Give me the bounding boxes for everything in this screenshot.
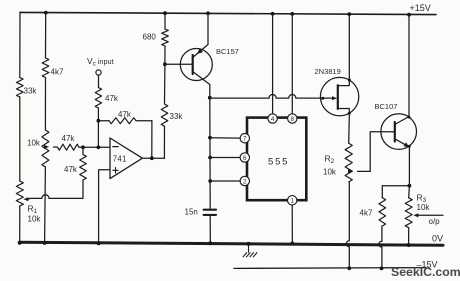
- svg-text:47k: 47k: [118, 110, 132, 119]
- 555 pin 8: [288, 114, 297, 123]
- wire collector node to FET gate: [210, 94, 332, 98]
- junction 4k7 / -15V: [380, 266, 384, 270]
- junction BC157 base node: [163, 62, 167, 66]
- dot drain-circle crossing: [348, 78, 351, 81]
- junction col-B / +15V: [44, 11, 48, 15]
- wire 33k to base junction: [164, 64, 166, 104]
- junction output node: [150, 156, 154, 160]
- wire feedback to down-corner: [136, 120, 152, 122]
- wire cap to 0V: [209, 215, 211, 243]
- wire vertical 47k to corner: [82, 180, 84, 198]
- svg-text:33k: 33k: [24, 87, 38, 96]
- wire pin6 to timing node: [210, 157, 240, 159]
- wire op-amp output: [142, 157, 164, 159]
- resistor 47k (pot wiper to inverting node): [58, 144, 80, 150]
- wire 47k to op-amp inverting input: [79, 146, 110, 148]
- svg-text:10k: 10k: [323, 168, 337, 177]
- svg-text:47k: 47k: [105, 94, 119, 103]
- wire pin4 to +15V: [272, 14, 274, 114]
- 555 pin 7: [240, 134, 249, 143]
- wire R1 to 0V: [19, 206, 21, 242]
- resistor 680: [162, 29, 169, 46]
- BC157 collector: [193, 72, 210, 98]
- 555 pin 2: [240, 176, 249, 185]
- junction 680 / +15V: [163, 11, 167, 15]
- svg-text:0V: 0V: [432, 233, 443, 243]
- junction dot on gate wire: [321, 97, 324, 100]
- potentiometer 10k (left): [42, 130, 49, 167]
- wire pin2 to timing node: [210, 180, 240, 182]
- junction pin4 / +15V: [271, 12, 275, 16]
- resistor 47k (vertical, to R1 wiper): [80, 155, 87, 181]
- svg-text:47k: 47k: [64, 165, 78, 174]
- wire +15V to 33k R-left: [19, 12, 21, 77]
- BC157 base wire: [165, 63, 193, 65]
- resistor 47k (feedback): [109, 118, 136, 124]
- junction BC107 collector / +15V: [407, 13, 411, 17]
- junction cap / 0V: [208, 241, 212, 245]
- R3 wiper arrow (o/p): [413, 213, 418, 217]
- wire 47k to summing node: [97, 108, 99, 121]
- wire R2 to -15V (hops 0V): [346, 182, 349, 268]
- junction pin2 tap: [208, 179, 212, 183]
- +15V supply rail: [20, 12, 436, 14]
- wire non-inverting input to 0V: [99, 170, 110, 243]
- wire pin8 to +15V: [291, 14, 293, 114]
- potentiometer R1 10k: [16, 181, 23, 206]
- wire 33k to R1: [19, 97, 21, 181]
- potentiometer R3 10k: [405, 198, 412, 228]
- junction BC157 emitter / +15V: [206, 11, 210, 15]
- 555 pin 6: [240, 153, 249, 162]
- svg-text:2N3819: 2N3819: [315, 67, 341, 76]
- wire junction down to vertical 47k: [82, 147, 84, 154]
- R1 wiper arrow: [23, 197, 28, 201]
- junction inverting node: [97, 145, 101, 149]
- junction R2 / -15V: [347, 266, 351, 270]
- junction BC157 collector node: [208, 96, 212, 100]
- wire R1 wiper run (hops col-B): [30, 195, 84, 199]
- wire pot to 0V: [44, 167, 47, 242]
- transistor Q2 2N3819 body: [320, 77, 358, 115]
- wire collector node down to timing node: [209, 98, 211, 210]
- pot 10k wiper arrow: [44, 145, 49, 149]
- svg-text:o/p: o/p: [429, 217, 441, 226]
- svg-text:33k: 33k: [170, 112, 184, 121]
- svg-text:+15V: +15V: [410, 3, 431, 13]
- 2N3819 channel bar: [337, 85, 339, 109]
- svg-text:7: 7: [243, 136, 247, 143]
- -15V rail: [234, 267, 426, 270]
- junction pin1 / 0V: [290, 242, 294, 246]
- resistor 4k7 (left): [42, 58, 49, 78]
- op-amp plus sign: [113, 169, 118, 171]
- svg-text:8: 8: [291, 116, 295, 123]
- 555 pin 4: [268, 114, 277, 123]
- resistor 33k (middle): [161, 104, 168, 126]
- BC157 base bar: [192, 55, 194, 74]
- wire summing node to inverting node: [97, 121, 99, 148]
- junction summing node: [97, 119, 101, 123]
- wire emitter node to R3: [408, 186, 411, 198]
- R2 wiper arrow: [348, 169, 353, 173]
- svg-text:BC157: BC157: [216, 47, 239, 56]
- resistor 47k (Vc input): [95, 88, 101, 109]
- transistor Q1 BC157 body: [180, 49, 212, 81]
- junction R3 / 0V: [407, 243, 411, 247]
- resistor 4k7 (right): [379, 198, 386, 226]
- wire feedback down to output: [151, 121, 153, 159]
- BC107 collector (to +15V): [395, 15, 409, 125]
- op-amp minus sign: [113, 146, 118, 148]
- 2N3819 source lead: [338, 109, 350, 144]
- svg-text:10k: 10k: [417, 203, 431, 212]
- FET gate arrow: [332, 96, 337, 100]
- wire output up to 33k: [163, 126, 165, 158]
- Vc input terminal: [96, 70, 101, 75]
- BC157 emitter arrow (PNP): [197, 48, 203, 54]
- 555 pin 1: [288, 196, 297, 205]
- svg-text:6: 6: [243, 155, 247, 162]
- 2N3819 drain lead: [338, 14, 350, 86]
- junction drain / +15V: [347, 12, 351, 16]
- capacitor 15n top plate: [204, 209, 216, 211]
- wire pin7 to timing node: [210, 137, 240, 139]
- svg-text:4: 4: [271, 116, 275, 123]
- svg-text:4k7: 4k7: [51, 68, 64, 77]
- 0V rail: [20, 242, 443, 245]
- svg-text:SeekIC.com: SeekIC.com: [391, 265, 460, 279]
- svg-text:Vc input: Vc input: [87, 56, 114, 68]
- svg-text:1: 1: [290, 198, 294, 205]
- dot collector-circle crossing: [408, 116, 411, 119]
- wire 4k7 to pot 10k: [44, 78, 46, 131]
- junction col-B / 0V: [43, 241, 47, 245]
- svg-text:10k: 10k: [27, 138, 41, 147]
- wire base node up to 680: [164, 46, 166, 64]
- svg-text:4k7: 4k7: [360, 209, 373, 218]
- wire summing node to feedback 47k: [98, 120, 109, 122]
- junction col-A / 0V: [18, 241, 22, 245]
- potentiometer R2 10k: [345, 143, 352, 182]
- wire Vc terminal to 47k: [98, 75, 100, 87]
- BC107 emitter arrow (NPN): [404, 142, 410, 147]
- svg-text:555: 555: [268, 157, 289, 168]
- resistor 33k (left): [17, 78, 24, 98]
- capacitor 15n bottom plate: [204, 214, 216, 216]
- junction pin7 tap: [208, 136, 212, 140]
- svg-text:2: 2: [243, 178, 247, 185]
- wire R2 wiper to BC107 base: [370, 132, 394, 172]
- wire pin1 to 0V: [291, 205, 293, 243]
- wire 4k7 to -15V (hops 0V): [379, 226, 382, 268]
- wire R3 to 0V: [408, 228, 410, 245]
- svg-text:741: 741: [113, 155, 127, 164]
- dot source-circle crossing: [348, 112, 351, 115]
- BC107 emitter: [395, 139, 408, 146]
- wire emitter down: [408, 148, 410, 186]
- svg-text:47k: 47k: [62, 134, 76, 143]
- IC 555 body: [247, 118, 306, 201]
- svg-text:BC107: BC107: [375, 102, 398, 111]
- svg-text:10k: 10k: [28, 215, 42, 224]
- transistor Q3 BC107 body: [381, 114, 417, 150]
- ground: [243, 245, 257, 258]
- junction emitter node: [408, 184, 412, 188]
- wire +15V to 4k7: [45, 13, 47, 58]
- junction vertical-47k tap: [81, 145, 85, 149]
- junction pin8 / +15V: [290, 12, 294, 16]
- BC157 emitter (to +15V): [193, 13, 208, 57]
- junction +input / 0V rail: [97, 241, 101, 245]
- BC107 base bar: [394, 122, 396, 142]
- junction pin6 tap: [208, 156, 212, 160]
- svg-text:680: 680: [143, 33, 157, 42]
- wire 680 to +15V: [164, 13, 166, 29]
- svg-text:15n: 15n: [185, 207, 198, 216]
- wire emitter node to 4k7: [382, 186, 409, 198]
- dot emitter-circle crossing: [408, 145, 411, 148]
- op-amp U1 741: [110, 138, 142, 179]
